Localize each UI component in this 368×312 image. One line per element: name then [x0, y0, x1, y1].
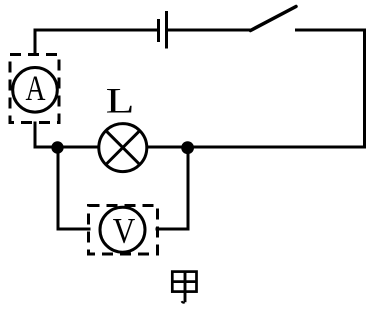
battery cell negative plate short — [157, 19, 160, 42]
svg-text:L: L — [106, 80, 135, 120]
wire voltmeter branch right vertical — [187, 151, 190, 229]
node junction dot right — [181, 141, 194, 154]
wire bottom of loop lamp row right — [148, 146, 365, 149]
wire ammeter top lead — [34, 30, 37, 54]
wire ammeter bottom lead — [34, 123, 37, 146]
wire lamp row left — [35, 146, 98, 149]
node junction dot left — [51, 141, 63, 153]
svg-text:A: A — [26, 68, 46, 108]
wire top-left horizontal — [35, 29, 157, 32]
label jia caption — [171, 271, 197, 303]
wire switch to top-right corner — [297, 29, 364, 32]
wire battery to switch — [168, 29, 251, 32]
lamp L circle — [99, 124, 147, 172]
ammeter dashed box — [10, 55, 59, 123]
svg-text:V: V — [113, 210, 136, 250]
lamp L cross — [106, 131, 140, 165]
voltmeter dashed box — [89, 206, 158, 255]
wire voltmeter branch right horizontal — [157, 228, 187, 231]
ammeter circle — [13, 68, 58, 113]
wire right side vertical — [363, 30, 366, 147]
switch S blade — [251, 7, 297, 31]
wire voltmeter branch left vertical — [57, 151, 60, 229]
voltmeter circle — [100, 207, 145, 252]
wire voltmeter branch left horizontal — [58, 228, 89, 231]
battery cell positive plate long — [165, 11, 168, 49]
